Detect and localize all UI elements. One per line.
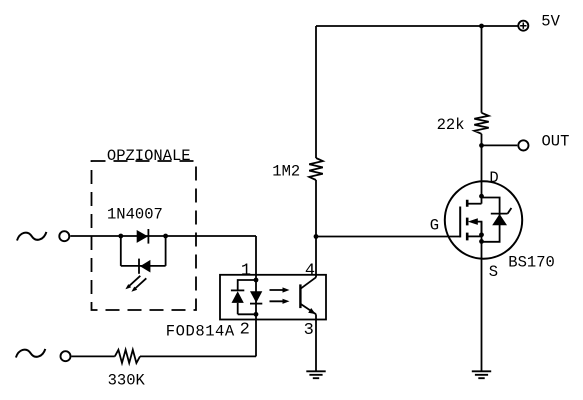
svg-text:BS170: BS170 [508,254,555,272]
Q1 body-diode branch [482,198,500,242]
wire OUT [482,144,518,146]
svg-text:2: 2 [240,321,250,340]
opto phototransistor collector [300,277,316,289]
svg-text:OPZIONALE: OPZIONALE [107,147,191,165]
Q1 source stub [467,235,481,237]
wire right vertical top [481,26,483,113]
svg-text:G: G [430,217,439,235]
resistor R 22k [474,113,488,134]
opto LED left branch [238,280,256,314]
Q1 channel segments [466,200,469,241]
dashed box OPZIONALE [92,161,197,310]
svg-text:1N4007: 1N4007 [107,206,163,224]
svg-text:5V: 5V [541,12,560,30]
svg-text:3: 3 [304,321,314,340]
wire left vertical (to 1M2) [315,26,317,158]
wire opto pin1 drop [255,236,257,280]
svg-text:FOD814A: FOD814A [166,323,235,341]
ground (source) [472,371,491,378]
LED D2 [140,260,150,273]
opto LED up diode [232,291,244,303]
resistor R 1M2 [309,158,323,180]
AC tilde bottom [16,349,45,358]
svg-text:330K: 330K [108,371,146,389]
transistor Q1 BS170 body circle [445,181,522,258]
Q1 gate bar [459,207,461,238]
resistor R 330K [115,350,140,363]
wire source vertical [481,222,483,371]
diode D1 1N4007 [137,230,148,243]
LED emission arrows [128,276,147,290]
node OUT junction [479,143,484,148]
node Q1 body dot [479,239,484,244]
node diode branch left [118,234,123,239]
opto phototransistor base bar [299,284,301,308]
wire AC bottom right [140,355,256,357]
wire 1M2 to opto pin4 [315,180,317,277]
wire top rail [316,25,518,27]
wire 22k to drain [481,134,483,204]
Q1 body stub with arrow [477,222,482,236]
Q1 body diode [492,214,507,225]
wire AC top [70,235,256,237]
node opto pin1 dot [254,278,259,283]
opto LED main line [255,280,257,314]
ground (opto pin3) [306,371,325,378]
wire opto pin3 to ground [315,314,317,371]
terminal AC input top [59,231,69,241]
node opto pin2 dot [254,312,259,317]
wire opto pin2 rise [255,314,257,356]
node Q1 source dot [479,232,484,237]
wire gate net [316,236,460,238]
svg-text:S: S [489,263,498,281]
svg-text:1M2: 1M2 [272,162,300,180]
terminal 5V [518,21,528,31]
AC tilde top [17,232,46,241]
svg-text:D: D [489,169,498,187]
node Q1 drain dot [479,194,484,199]
wire LED branch [121,236,166,266]
svg-text:OUT: OUT [542,133,570,151]
opto light arrows [270,290,284,301]
terminal AC input bottom [61,351,71,361]
svg-text:22k: 22k [437,116,465,134]
svg-text:4: 4 [305,262,315,281]
optocoupler U1 FOD814A box [220,275,326,320]
terminal OUT [518,140,528,150]
wire AC bottom left [72,355,115,357]
node top rail junction [479,24,484,29]
node diode branch right [163,234,168,239]
node gate junction [314,234,319,239]
opto phototransistor emitter [300,304,316,315]
Q1 drain stub [467,203,481,205]
svg-text:1: 1 [241,262,251,281]
opto LED down diode [250,291,262,303]
